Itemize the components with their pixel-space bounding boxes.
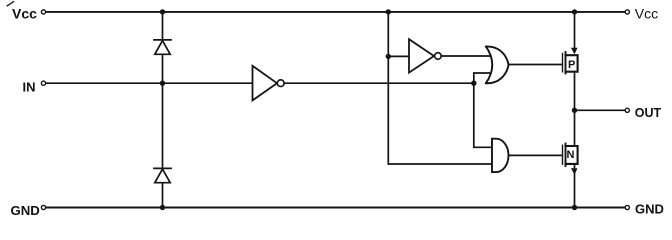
wire node A up to OR gate lower input — [474, 73, 491, 83]
wire U2 output to OR gate top input — [441, 55, 490, 57]
junction on Vcc rail at diode column — [160, 9, 165, 14]
wire to U2 input — [388, 55, 409, 57]
junction on Vcc rail at x=388 — [386, 9, 391, 14]
wire PMOS drain to NMOS drain — [574, 72, 576, 146]
Q2 source/drain bracket — [566, 146, 578, 164]
diode D1 (IN to Vcc) — [154, 40, 171, 54]
wire node A down to AND gate upper input — [474, 83, 493, 147]
wire to AND gate lower input — [388, 163, 492, 165]
Q1 gate bar — [562, 54, 564, 72]
wire GND rail — [46, 207, 625, 209]
junction on IN line at diode column — [160, 81, 165, 86]
junction at inverter U2 input branch — [386, 54, 391, 59]
junction Vcc rail to PMOS — [572, 9, 577, 14]
terminal OUT — [625, 108, 629, 112]
transistor Q1 PMOS — [563, 12, 578, 74]
D1 cathode bar — [154, 39, 171, 41]
inverter U2 (top inverter) — [409, 39, 441, 72]
diode D2 (GND to IN) — [154, 168, 171, 182]
wire OUT — [575, 109, 626, 111]
junction GND rail to NMOS — [572, 205, 577, 210]
svg-text:Vcc: Vcc — [12, 6, 37, 22]
Q1 source arrow — [571, 48, 578, 55]
corner artifact slash — [7, 2, 13, 6]
Q2 gate bar — [562, 145, 564, 164]
AND gate U4 — [492, 139, 509, 172]
transistor Q2 NMOS — [563, 144, 578, 208]
svg-text:GND: GND — [635, 202, 664, 217]
wire OR output to PMOS gate — [508, 64, 562, 66]
junction OUT node — [572, 108, 577, 113]
junction on GND rail at diode column — [160, 205, 165, 210]
terminal GND right — [625, 205, 629, 209]
svg-text:OUT: OUT — [635, 106, 662, 120]
svg-text:Vcc: Vcc — [635, 6, 658, 22]
Q2 channel bar — [565, 144, 567, 167]
inverter U1 (input inverter) — [253, 66, 285, 101]
wire Vcc rail — [46, 11, 625, 13]
wire diode column — [162, 12, 164, 208]
D2 cathode bar — [154, 167, 171, 169]
Q2 source arrow — [571, 168, 578, 175]
wire Vcc to Q1 source — [574, 12, 576, 49]
terminal Vcc right — [625, 10, 629, 14]
svg-text:IN: IN — [23, 80, 36, 95]
terminal Vcc left — [41, 10, 45, 14]
OR gate U3 — [486, 47, 509, 84]
svg-text:N: N — [567, 149, 575, 161]
wire AND output to NMOS gate — [509, 154, 563, 156]
node A junction on signal line — [471, 81, 476, 86]
terminal IN — [41, 81, 45, 85]
terminal GND left — [41, 205, 45, 209]
svg-text:GND: GND — [11, 203, 40, 218]
svg-text:P: P — [568, 59, 575, 71]
wire IN line — [46, 82, 253, 84]
D2 anode triangle — [155, 169, 170, 183]
Q1 source/drain bracket — [566, 55, 578, 71]
D1 anode triangle — [155, 41, 170, 55]
wire Q2 source to GND — [574, 164, 576, 208]
wire U1 output to node A — [284, 82, 474, 84]
wire Vcc branch vertical at x=388 — [387, 12, 389, 164]
Q1 channel bar — [565, 52, 567, 74]
